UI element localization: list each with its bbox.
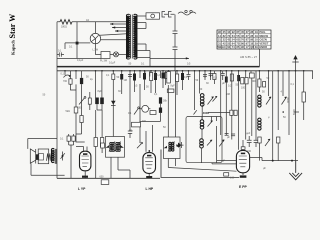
svg-text:17: 17 (246, 45, 249, 49)
bottom rail far right (262, 160, 298, 162)
speaker wires (28, 139, 65, 176)
switch S-band (79, 98, 85, 105)
switch arrows mid (219, 140, 224, 147)
svg-text:10: 10 (255, 38, 258, 42)
capacitor C-line (57, 52, 64, 56)
svg-text:5kΩ: 5kΩ (66, 110, 71, 113)
svg-text:8µF: 8µF (98, 90, 103, 93)
wire dial arrow (150, 51, 189, 67)
resistor R9 (132, 122, 141, 127)
ground earth (295, 161, 297, 173)
resistor R1 (69, 79, 72, 84)
capacitor C6 (88, 98, 91, 104)
resistor r151 (150, 71, 152, 93)
diode D1 (112, 98, 114, 107)
boxes near x231 (230, 110, 233, 115)
svg-text:WELN: WELN (218, 45, 226, 49)
capacitor c155 (155, 71, 157, 93)
wire cap branch (65, 43, 76, 49)
comp small (249, 73, 254, 78)
resistor r140b (139, 84, 141, 143)
antenna (292, 57, 298, 71)
transformer T1 primary winding (126, 14, 129, 59)
svg-text:75: 75 (236, 41, 239, 45)
svg-text:Star W: Star W (8, 14, 17, 39)
resistor R8 (159, 97, 162, 103)
antenna coil L4 (258, 95, 261, 98)
wire rectifier top (94, 22, 96, 34)
resistor R7 (150, 111, 156, 115)
transformer primary taps (110, 24, 127, 31)
trimmer arrows ant (266, 97, 271, 105)
arrow small (194, 110, 197, 114)
resistor horizontal r178 (167, 89, 174, 92)
triode circle (142, 105, 149, 112)
transformer T1 core (131, 15, 133, 59)
dial lamp LP1 (110, 52, 127, 57)
svg-text:100: 100 (241, 87, 246, 90)
svg-text:76: 76 (241, 38, 244, 42)
wire R chain down (71, 84, 82, 107)
svg-text:65: 65 (236, 38, 239, 42)
resistor R-feedback (80, 116, 83, 123)
svg-text:160: 160 (247, 150, 252, 153)
svg-text:6000: 6000 (292, 109, 296, 115)
value labels scatter (61, 73, 295, 180)
svg-text:E PP: E PP (239, 185, 247, 189)
svg-text:42: 42 (223, 41, 226, 45)
svg-text:3000: 3000 (286, 97, 290, 103)
resistor R-mains 180ohm (60, 20, 72, 24)
wire rectifier anode bottom (101, 39, 127, 41)
svg-text:96: 96 (241, 45, 244, 49)
svg-text:73: 73 (227, 34, 230, 38)
svg-text:300: 300 (252, 80, 257, 83)
svg-text:21: 21 (218, 38, 221, 42)
svg-text:45: 45 (241, 30, 244, 34)
wire mains top (57, 21, 127, 23)
svg-text:2M: 2M (227, 93, 230, 96)
wire tube2 top (146, 125, 153, 152)
rail HT lower (57, 70, 313, 72)
capacitor c221 (221, 71, 225, 80)
bottom rail left (57, 177, 160, 179)
tube V1 output LYP (76, 147, 91, 179)
transformer T1 secondary winding (134, 14, 137, 59)
svg-text:L 2W: L 2W (93, 48, 99, 51)
svg-text:87: 87 (246, 38, 249, 42)
svg-text:86: 86 (241, 41, 244, 45)
switch S-mains (101, 52, 110, 59)
svg-text:85: 85 (236, 45, 239, 49)
capacitor electrolytic C8 (100, 98, 104, 105)
svg-text:28: 28 (250, 30, 253, 34)
svg-text:4000: 4000 (203, 111, 210, 115)
svg-text:97: 97 (246, 41, 249, 45)
wire drop x77 (76, 22, 78, 59)
resistor R8b (159, 108, 162, 113)
capacitor c144 (144, 71, 146, 90)
output transformer T2 (51, 148, 54, 162)
resistor R5 (94, 138, 97, 147)
svg-text:55: 55 (236, 34, 239, 38)
svg-text:92: 92 (232, 30, 235, 34)
mixer stage verticals (221, 71, 256, 150)
svg-text:180Ω: 180Ω (61, 26, 67, 29)
svg-text:18: 18 (250, 41, 253, 45)
antenna coil L5 (258, 118, 261, 121)
svg-text:PHIL: PHIL (259, 30, 265, 34)
capacitor c163 (162, 71, 164, 88)
svg-text:PL 3W: PL 3W (100, 60, 108, 63)
transformer secondary taps (137, 16, 152, 58)
svg-text:19: 19 (255, 30, 258, 34)
coil box enclosure (186, 117, 222, 163)
antenna coil section verticals (259, 71, 312, 161)
junction dots on rails (64, 66, 304, 72)
coil L3 (200, 139, 213, 148)
switch S2 (134, 108, 138, 114)
svg-text:ENDR: ENDR (259, 45, 267, 49)
extra small parts (129, 62, 191, 65)
rectifier tube V4 (90, 33, 100, 43)
fuse holder F1 (146, 13, 160, 19)
resistor R6 (100, 138, 103, 147)
svg-text:98: 98 (250, 38, 253, 42)
mains cable (178, 12, 196, 15)
wire bottom power (57, 58, 101, 60)
svg-text:19: 19 (255, 34, 258, 38)
wire rectifier cathode (79, 42, 91, 44)
svg-text:82: 82 (223, 34, 226, 38)
oscillator coil L1 (200, 94, 204, 107)
switch S3 (137, 143, 142, 148)
capacitor electrolytic C7 (95, 98, 99, 105)
svg-text:87: 87 (236, 30, 239, 34)
svg-text:43: 43 (227, 38, 230, 42)
svg-text:L YP: L YP (78, 187, 86, 191)
svg-text:160: 160 (230, 177, 235, 180)
svg-text:VERST: VERST (259, 41, 268, 45)
svg-text:Kapsch: Kapsch (11, 40, 16, 55)
wire osc box internals (202, 117, 217, 163)
IF transformer can 1 (106, 137, 125, 158)
wire table stub (259, 49, 261, 67)
svg-text:0,1µF: 0,1µF (77, 59, 84, 62)
capacitor c130 (128, 75, 132, 77)
resistor R ant (258, 79, 261, 87)
IF transformer can 2 (164, 137, 181, 159)
bottom rail right (161, 150, 239, 178)
capacitor c121 (120, 74, 123, 80)
capacitor C-IF1 (101, 143, 105, 148)
svg-text:31: 31 (218, 41, 221, 45)
svg-text:8µF: 8µF (171, 85, 176, 88)
speaker (30, 149, 51, 164)
svg-text:16: 16 (227, 30, 230, 34)
tube V2 LHP (143, 150, 156, 178)
capacitor C14 (245, 78, 248, 84)
wire rectifier anode top (100, 34, 127, 35)
svg-text:Q8: Q8 (250, 45, 254, 49)
resistor R3 (80, 78, 83, 84)
connector block J1 (76, 42, 79, 45)
svg-text:63: 63 (227, 45, 230, 49)
svg-text:54: 54 (232, 38, 235, 42)
svg-text:37: 37 (246, 30, 249, 34)
capacitor on x130 (128, 131, 132, 138)
tube V3 EPP (236, 140, 249, 178)
pins connector (162, 12, 175, 18)
bottom comps ant (258, 137, 261, 143)
resistor R cathode 600 (101, 180, 109, 185)
svg-text:64: 64 (232, 41, 235, 45)
table tube socket data (217, 30, 271, 49)
resistor R right (302, 92, 305, 102)
svg-text:0,1µF: 0,1µF (109, 62, 116, 65)
wire verticals group A (audio stage) (65, 71, 102, 98)
svg-text:MEGW: MEGW (259, 34, 268, 38)
svg-text:AM S 85 ~ 27: AM S 85 ~ 27 (240, 55, 257, 59)
capacitor C13 (241, 78, 244, 84)
grid caps tube3 (247, 76, 259, 147)
svg-text:25: 25 (223, 30, 226, 34)
under-rail component band right (221, 71, 240, 83)
svg-text:64: 64 (232, 34, 235, 38)
trimmer arrows osc (208, 97, 214, 105)
wire rectifier to lamp (95, 44, 101, 55)
svg-text:600: 600 (100, 175, 105, 178)
capacitor c134 (134, 71, 136, 92)
svg-text:39: 39 (255, 45, 258, 49)
svg-text:OSZN: OSZN (259, 38, 267, 42)
coil L2 (200, 120, 213, 129)
under-rail component band mid (133, 71, 184, 143)
svg-text:29: 29 (255, 41, 258, 45)
capacitor c226 (225, 77, 228, 83)
svg-text:53: 53 (227, 41, 230, 45)
svg-text:700: 700 (63, 80, 68, 83)
svg-text:46: 46 (241, 34, 244, 38)
wire drop x175 with caps (173, 15, 178, 71)
capacitor c182 (182, 71, 184, 90)
oscillator section (189, 71, 211, 121)
wire left spine x57 (56, 22, 58, 179)
svg-text:32: 32 (223, 38, 226, 42)
capacitor cluster C9 (67, 136, 70, 141)
svg-text:74: 74 (232, 45, 235, 49)
title Kapsch Star W (8, 14, 17, 55)
resistor r177 (176, 71, 178, 95)
svg-text:300: 300 (142, 120, 147, 123)
svg-text:µµF: µµF (246, 132, 251, 135)
svg-text:1Ω: 1Ω (86, 19, 89, 22)
resistor R bias (224, 173, 229, 176)
svg-text:28: 28 (250, 34, 253, 38)
diode D2 (178, 143, 182, 148)
svg-text:L HP: L HP (146, 187, 154, 191)
wire verticals group B (IF stage) (113, 71, 175, 138)
capacitor C ant (263, 82, 266, 88)
resistor R4 5k (74, 107, 78, 113)
wires to tube3 grid (212, 158, 262, 164)
rail HT upper (57, 66, 260, 68)
variable resistor hum (61, 152, 65, 161)
capacitor electrolytic c168 (168, 70, 170, 73)
svg-text:14: 14 (218, 34, 221, 38)
potentiometer wave (64, 75, 71, 77)
capacitor row osc (187, 74, 213, 81)
capacitor c239 (237, 75, 240, 81)
capacitor c113 (112, 74, 115, 80)
svg-text:96: 96 (218, 30, 221, 34)
svg-text:37: 37 (246, 34, 249, 38)
svg-text:1M: 1M (124, 79, 127, 82)
resistor r232 (230, 74, 233, 81)
